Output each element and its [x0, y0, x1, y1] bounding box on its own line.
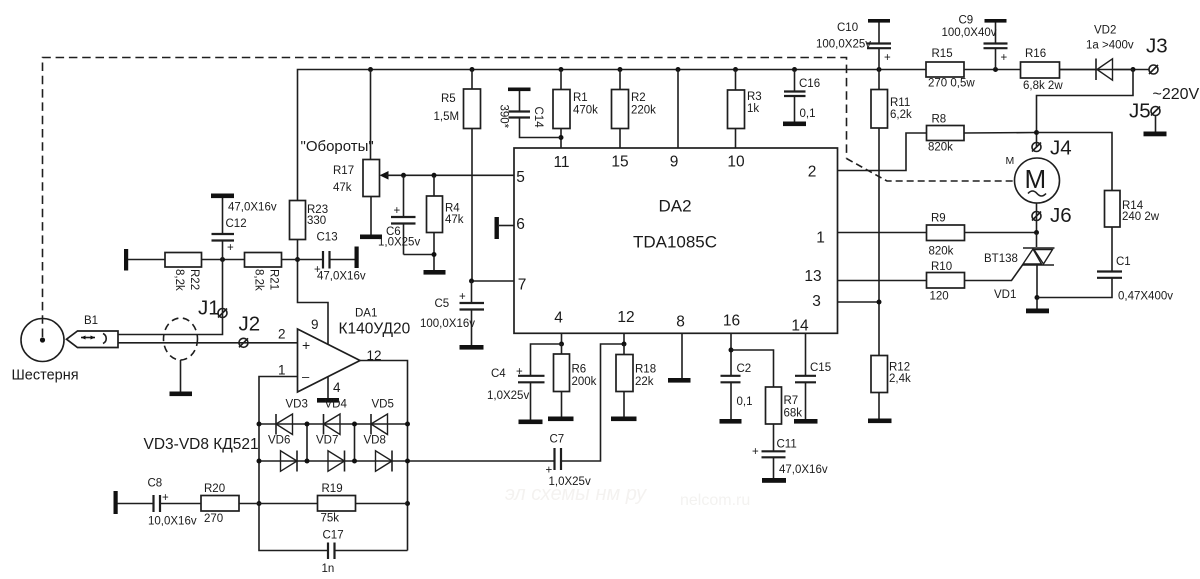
capacitor C9	[942, 15, 1008, 70]
connector J4	[1032, 137, 1072, 160]
wire R18 to ground	[623, 392, 625, 417]
svg-text:47k: 47k	[333, 182, 352, 194]
svg-text:120: 120	[930, 291, 949, 303]
ground R12	[868, 419, 892, 424]
svg-text:J1: J1	[198, 297, 220, 320]
resistor R9	[927, 213, 965, 258]
wire junction to J1 and B1 top wire	[118, 260, 223, 335]
svg-text:270: 270	[204, 513, 223, 525]
resistor R14	[1105, 191, 1160, 228]
svg-text:VD8: VD8	[364, 435, 386, 447]
ground C11	[762, 478, 786, 483]
svg-text:B1: B1	[84, 315, 98, 327]
terminal bar right of C13	[355, 247, 359, 269]
svg-text:4: 4	[554, 310, 563, 327]
wire C13 to terminal bar	[330, 259, 356, 261]
svg-text:200k: 200k	[572, 376, 597, 388]
svg-text:J6: J6	[1050, 204, 1072, 227]
wire pin8 stub	[681, 333, 683, 378]
ground C15	[794, 419, 818, 424]
svg-text:R2: R2	[631, 92, 646, 104]
resistor R7	[766, 387, 803, 424]
diode VD5	[371, 399, 394, 435]
diode VD2	[1060, 25, 1134, 81]
wire R5 down to pin7 node	[471, 129, 473, 282]
svg-text:VD7: VD7	[316, 435, 338, 447]
svg-text:VD3-VD8 КД521: VD3-VD8 КД521	[144, 436, 259, 453]
node pin12	[622, 342, 627, 347]
wire R2 to pin 15	[619, 129, 621, 149]
svg-text:–: –	[302, 369, 310, 384]
capacitor C17	[322, 530, 408, 576]
svg-text:C1: C1	[1116, 256, 1131, 268]
svg-text:6,8k 2w: 6,8k 2w	[1023, 80, 1063, 92]
capacitor C1	[1097, 256, 1173, 303]
svg-text:47,0X16v: 47,0X16v	[317, 271, 366, 283]
diode VD6	[268, 435, 297, 472]
potentiometer R17	[333, 160, 389, 197]
svg-text:VD5: VD5	[372, 399, 394, 411]
svg-text:+: +	[516, 366, 523, 378]
wire R22 to R21	[202, 259, 245, 261]
resistor R2	[612, 70, 657, 129]
svg-text:J4: J4	[1050, 137, 1072, 160]
node C14 junction	[559, 135, 564, 140]
svg-text:5: 5	[516, 169, 525, 186]
svg-text:VD3: VD3	[286, 399, 308, 411]
svg-text:R12: R12	[889, 362, 910, 374]
svg-text:R1: R1	[573, 92, 588, 104]
resistor R23	[290, 201, 329, 240]
svg-text:эл схемы нм ру: эл схемы нм ру	[505, 483, 647, 505]
svg-text:C9: C9	[959, 15, 974, 27]
wire R9 to J6 node	[965, 232, 1037, 234]
capacitor C11	[752, 424, 828, 478]
svg-text:R9: R9	[931, 213, 946, 225]
wire J4 node to R14	[1037, 133, 1113, 191]
ground C5	[460, 345, 484, 350]
sensor B1 body	[67, 315, 119, 348]
svg-text:J2: J2	[239, 313, 261, 336]
node J6 junction	[1034, 230, 1039, 235]
svg-text:820k: 820k	[928, 142, 953, 154]
capacitor C12	[211, 194, 277, 260]
svg-text:68k: 68k	[784, 408, 803, 420]
wire opamp pin4 ground	[327, 377, 329, 398]
svg-text:R15: R15	[932, 48, 953, 60]
svg-text:7: 7	[518, 277, 527, 294]
ground triac	[1026, 309, 1049, 314]
wire pin7 to chip	[471, 280, 514, 282]
svg-text:8,2k: 8,2k	[173, 269, 185, 291]
capacitor C5	[420, 281, 484, 345]
svg-text:100,0X40v: 100,0X40v	[942, 27, 997, 39]
svg-text:~220V: ~220V	[1153, 86, 1200, 103]
resistor R16	[1021, 48, 1064, 92]
diode VD8	[364, 435, 393, 472]
resistor R12	[871, 356, 911, 393]
wire matrix vertical link 1	[306, 424, 308, 461]
wire terminal to C8	[118, 503, 153, 505]
node J4 junction	[1034, 130, 1039, 135]
svg-text:DA2: DA2	[658, 197, 691, 216]
diode VD7	[316, 435, 345, 472]
svg-text:DA1: DA1	[355, 308, 377, 320]
resistor R11	[871, 70, 912, 129]
wire R17 to ground	[370, 197, 372, 235]
wire bus to pin 9	[677, 70, 679, 149]
svg-text:1a >400v: 1a >400v	[1086, 40, 1134, 52]
wire motor to J6	[1036, 203, 1038, 233]
svg-text:470k: 470k	[573, 105, 598, 117]
svg-text:nelcom.ru: nelcom.ru	[680, 492, 750, 509]
terminal bar left of C8	[114, 491, 118, 514]
svg-text:R8: R8	[932, 114, 947, 126]
resistor R5	[434, 70, 481, 129]
svg-text:+: +	[162, 492, 169, 504]
capacitor C2	[721, 363, 753, 419]
wire pin16 stub	[730, 333, 732, 375]
wire R8 to J4 node	[964, 132, 1037, 135]
resistor R20	[201, 483, 239, 525]
svg-text:M: M	[1006, 155, 1015, 167]
node C12 J1 junction	[220, 257, 225, 262]
wire pin5 from R17 wiper to chip	[386, 174, 514, 176]
node C6 tap	[401, 173, 406, 178]
svg-text:10,0X16v: 10,0X16v	[148, 516, 197, 528]
svg-text:270 0,5w: 270 0,5w	[928, 78, 975, 90]
svg-text:BT138: BT138	[984, 253, 1018, 265]
node R21 C13 junction	[295, 257, 300, 262]
wire J3 down to J4 node	[1037, 70, 1134, 148]
ground C4	[519, 420, 543, 425]
svg-text:2: 2	[278, 327, 286, 342]
node pin4	[559, 342, 564, 347]
capacitor C13	[314, 232, 366, 283]
op-amp DA1	[278, 308, 411, 396]
wire diode row2 to C7	[259, 460, 555, 462]
wire terminal to R22	[128, 259, 165, 261]
svg-text:820k: 820k	[929, 246, 954, 258]
capacitor C10	[816, 19, 891, 70]
svg-text:22k: 22k	[635, 376, 654, 388]
svg-text:9: 9	[311, 317, 319, 332]
svg-text:+: +	[884, 52, 891, 64]
svg-text:VD6: VD6	[268, 435, 290, 447]
ground R17	[360, 235, 382, 240]
svg-text:47,0X16v: 47,0X16v	[779, 464, 828, 476]
node triac bottom	[1035, 295, 1040, 300]
svg-text:0,1: 0,1	[737, 396, 753, 408]
svg-text:240 2w: 240 2w	[1122, 211, 1160, 223]
svg-text:220k: 220k	[631, 105, 656, 117]
connector J1	[198, 297, 227, 320]
svg-text:4: 4	[333, 380, 341, 395]
resistor R6	[554, 344, 597, 392]
ground R18	[611, 417, 637, 422]
capacitor C16	[784, 70, 820, 122]
resistor R18	[616, 344, 656, 392]
svg-text:390*: 390*	[498, 105, 510, 129]
motor M	[1006, 155, 1060, 203]
svg-text:VD1: VD1	[994, 289, 1016, 301]
svg-text:C17: C17	[323, 530, 344, 542]
wire triac to bottom node	[1036, 265, 1038, 309]
diode VD4	[324, 399, 348, 435]
svg-text:47k: 47k	[445, 214, 464, 226]
resistor R19	[318, 483, 356, 525]
svg-text:R10: R10	[931, 261, 952, 273]
svg-text:R5: R5	[441, 93, 456, 105]
svg-text:C15: C15	[810, 362, 831, 374]
terminal bar left of R22	[124, 249, 128, 271]
terminal bar pin6	[495, 217, 515, 239]
wire matrix vertical link 2	[354, 424, 356, 461]
svg-text:R4: R4	[445, 203, 460, 215]
wire R12 to ground	[878, 393, 880, 419]
svg-text:R17: R17	[333, 165, 354, 177]
connector J3	[1146, 35, 1168, 75]
svg-text:J5: J5	[1129, 100, 1151, 123]
svg-text:R11: R11	[890, 97, 910, 109]
wire pin14 stub	[805, 333, 807, 375]
svg-text:C14: C14	[532, 107, 544, 129]
node diode matrix dots	[257, 422, 411, 507]
ground pin8	[668, 378, 691, 383]
svg-text:M: M	[1025, 164, 1047, 194]
wire R11 down through pin3 to R12	[878, 128, 880, 356]
svg-text:VD4: VD4	[325, 399, 348, 411]
wire R14 to C1	[1111, 227, 1113, 271]
svg-text:16: 16	[723, 313, 740, 330]
wire B1 bottom wire to opamp	[118, 342, 298, 344]
svg-text:TDA1085C: TDA1085C	[633, 233, 717, 252]
wire R19 to right vertical	[356, 503, 408, 505]
ground C2	[720, 419, 742, 424]
wire R23 bottom to opamp pin9	[298, 240, 329, 345]
svg-text:Шестерня: Шестерня	[12, 368, 79, 384]
capacitor C8	[148, 478, 197, 528]
wire diode row1	[259, 423, 408, 425]
wire J5 to ground	[1155, 116, 1157, 132]
node R4 C6 junction	[432, 252, 437, 257]
svg-text:1,0X25v: 1,0X25v	[487, 390, 529, 402]
svg-text:R21: R21	[268, 269, 280, 290]
wire R6 to ground	[561, 392, 563, 417]
node pin3 junction	[877, 300, 882, 305]
svg-text:2,4k: 2,4k	[889, 373, 911, 385]
svg-text:8,2k: 8,2k	[253, 269, 265, 291]
wire pin12 stub	[623, 333, 625, 344]
svg-text:C12: C12	[226, 218, 247, 230]
resistor R4	[427, 175, 464, 232]
wire opamp output down	[360, 361, 408, 551]
svg-text:+: +	[459, 291, 466, 303]
svg-text:1,5M: 1,5M	[434, 111, 460, 123]
svg-text:1: 1	[816, 230, 825, 247]
svg-text:9: 9	[670, 154, 679, 171]
wire pin4 to C4	[531, 344, 562, 375]
wire R10 to triac gate	[965, 265, 1023, 281]
svg-text:C7: C7	[550, 434, 565, 446]
svg-text:6,2k: 6,2k	[890, 109, 912, 121]
svg-text:100,0X25v: 100,0X25v	[816, 39, 871, 51]
resistor R15	[926, 48, 975, 90]
svg-text:1: 1	[278, 363, 286, 378]
connector J6	[1032, 204, 1072, 227]
resistor R22	[165, 253, 202, 291]
node pin16	[729, 348, 734, 353]
svg-text:2: 2	[808, 164, 817, 181]
svg-text:R16: R16	[1025, 48, 1046, 60]
svg-text:C10: C10	[837, 22, 858, 34]
wire bus R15 to R16	[964, 69, 1021, 71]
wire pin4 stub	[561, 333, 563, 344]
wire pin1 of DA2 to R9	[838, 232, 927, 234]
wire opamp pin1 to diode matrix	[259, 377, 328, 551]
svg-text:R6: R6	[572, 364, 587, 376]
wire pin16 to R7	[731, 350, 774, 387]
gear sensor circle	[12, 319, 79, 384]
wire VD2 to J3	[1114, 69, 1150, 71]
svg-text:R22: R22	[188, 269, 200, 290]
wire R21 to C13	[282, 259, 323, 261]
wire pin2 of DA2 to R8	[838, 133, 927, 171]
node R4 tap	[432, 173, 437, 178]
svg-text:R20: R20	[204, 483, 225, 495]
capacitor C14	[498, 88, 562, 138]
svg-text:C8: C8	[148, 478, 163, 490]
svg-text:+: +	[1001, 52, 1008, 64]
ground R6	[548, 417, 574, 422]
connector J5	[1129, 100, 1160, 123]
resistor R10	[927, 261, 965, 303]
resistor R8	[927, 114, 965, 154]
svg-text:+: +	[302, 337, 310, 353]
capacitor C4	[487, 366, 545, 420]
IC DA2 TDA1085C	[514, 148, 838, 333]
svg-text:C2: C2	[737, 363, 752, 375]
svg-text:0,47X400v: 0,47X400v	[1118, 291, 1173, 303]
svg-text:VD2: VD2	[1094, 25, 1116, 37]
svg-text:8: 8	[676, 314, 685, 331]
svg-text:J3: J3	[1146, 35, 1168, 58]
svg-text:3: 3	[812, 293, 821, 310]
ground opamp pin4	[317, 398, 339, 403]
shield dashed ellipse	[164, 318, 198, 396]
svg-text:К140УД20: К140УД20	[339, 321, 411, 338]
svg-text:C11: C11	[777, 439, 797, 451]
svg-text:R19: R19	[322, 483, 343, 495]
svg-text:1n: 1n	[322, 563, 335, 575]
svg-text:330: 330	[307, 215, 326, 227]
svg-text:75k: 75k	[321, 513, 340, 525]
wire main supply bus	[298, 70, 927, 201]
wire C7 to pin12 node	[561, 344, 624, 461]
svg-text:13: 13	[804, 268, 821, 285]
wire R1 to pin 11	[560, 129, 562, 149]
connector J2	[239, 313, 261, 348]
watermark	[505, 483, 750, 509]
svg-text:+: +	[227, 242, 234, 254]
svg-text:1,0X25v: 1,0X25v	[378, 237, 420, 249]
svg-text:+: +	[752, 446, 759, 458]
wire C8 to R20	[160, 503, 201, 505]
wire J6 node to triac	[1036, 233, 1038, 248]
resistor R1	[553, 70, 598, 129]
svg-text:47,0X16v: 47,0X16v	[228, 202, 277, 214]
capacitor C15	[795, 362, 831, 419]
svg-text:100,0X16v: 100,0X16v	[420, 318, 475, 330]
svg-text:C13: C13	[317, 232, 338, 244]
svg-text:R18: R18	[635, 364, 656, 376]
svg-text:C16: C16	[799, 78, 820, 90]
svg-text:15: 15	[611, 154, 628, 171]
wire C6 bottom to R4 node	[404, 254, 435, 256]
svg-text:0,1: 0,1	[800, 108, 816, 120]
svg-text:10: 10	[727, 154, 745, 171]
svg-text:R7: R7	[784, 395, 799, 407]
svg-text:+: +	[394, 205, 401, 217]
wire R20 to R19	[239, 503, 318, 505]
wire bus to R17	[370, 70, 372, 160]
wire C1 to triac bottom node	[1037, 278, 1112, 298]
svg-text:+: +	[546, 465, 553, 477]
ground J5	[1144, 132, 1167, 137]
ground R4	[424, 270, 446, 275]
svg-text:12: 12	[617, 309, 634, 326]
svg-text:"Обороты": "Обороты"	[301, 138, 374, 155]
svg-text:R3: R3	[747, 91, 762, 103]
diode VD3	[276, 399, 308, 435]
wire pin3 of DA2 to R11 line	[838, 301, 880, 303]
svg-text:6: 6	[516, 216, 525, 233]
svg-text:1k: 1k	[747, 103, 759, 115]
node pin7 C5 junction	[469, 279, 474, 284]
ground C16	[783, 122, 806, 127]
wire R3 to pin 10	[735, 129, 737, 149]
svg-text:C5: C5	[435, 298, 450, 310]
svg-text:C4: C4	[491, 368, 506, 380]
svg-text:14: 14	[791, 318, 809, 335]
node bus junction dots	[368, 67, 1136, 72]
resistor R21	[245, 253, 282, 291]
triac VD1 BT138	[984, 248, 1055, 301]
wire dashed tacho loop	[43, 58, 1015, 338]
wire bus R16 to VD2	[1060, 69, 1097, 71]
resistor R3	[728, 70, 762, 129]
wire pin13 of DA2 to R10	[838, 280, 927, 282]
capacitor C7	[546, 434, 591, 489]
svg-text:11: 11	[553, 154, 569, 171]
wire R4 to ground	[433, 233, 435, 271]
capacitor C6	[378, 175, 420, 254]
